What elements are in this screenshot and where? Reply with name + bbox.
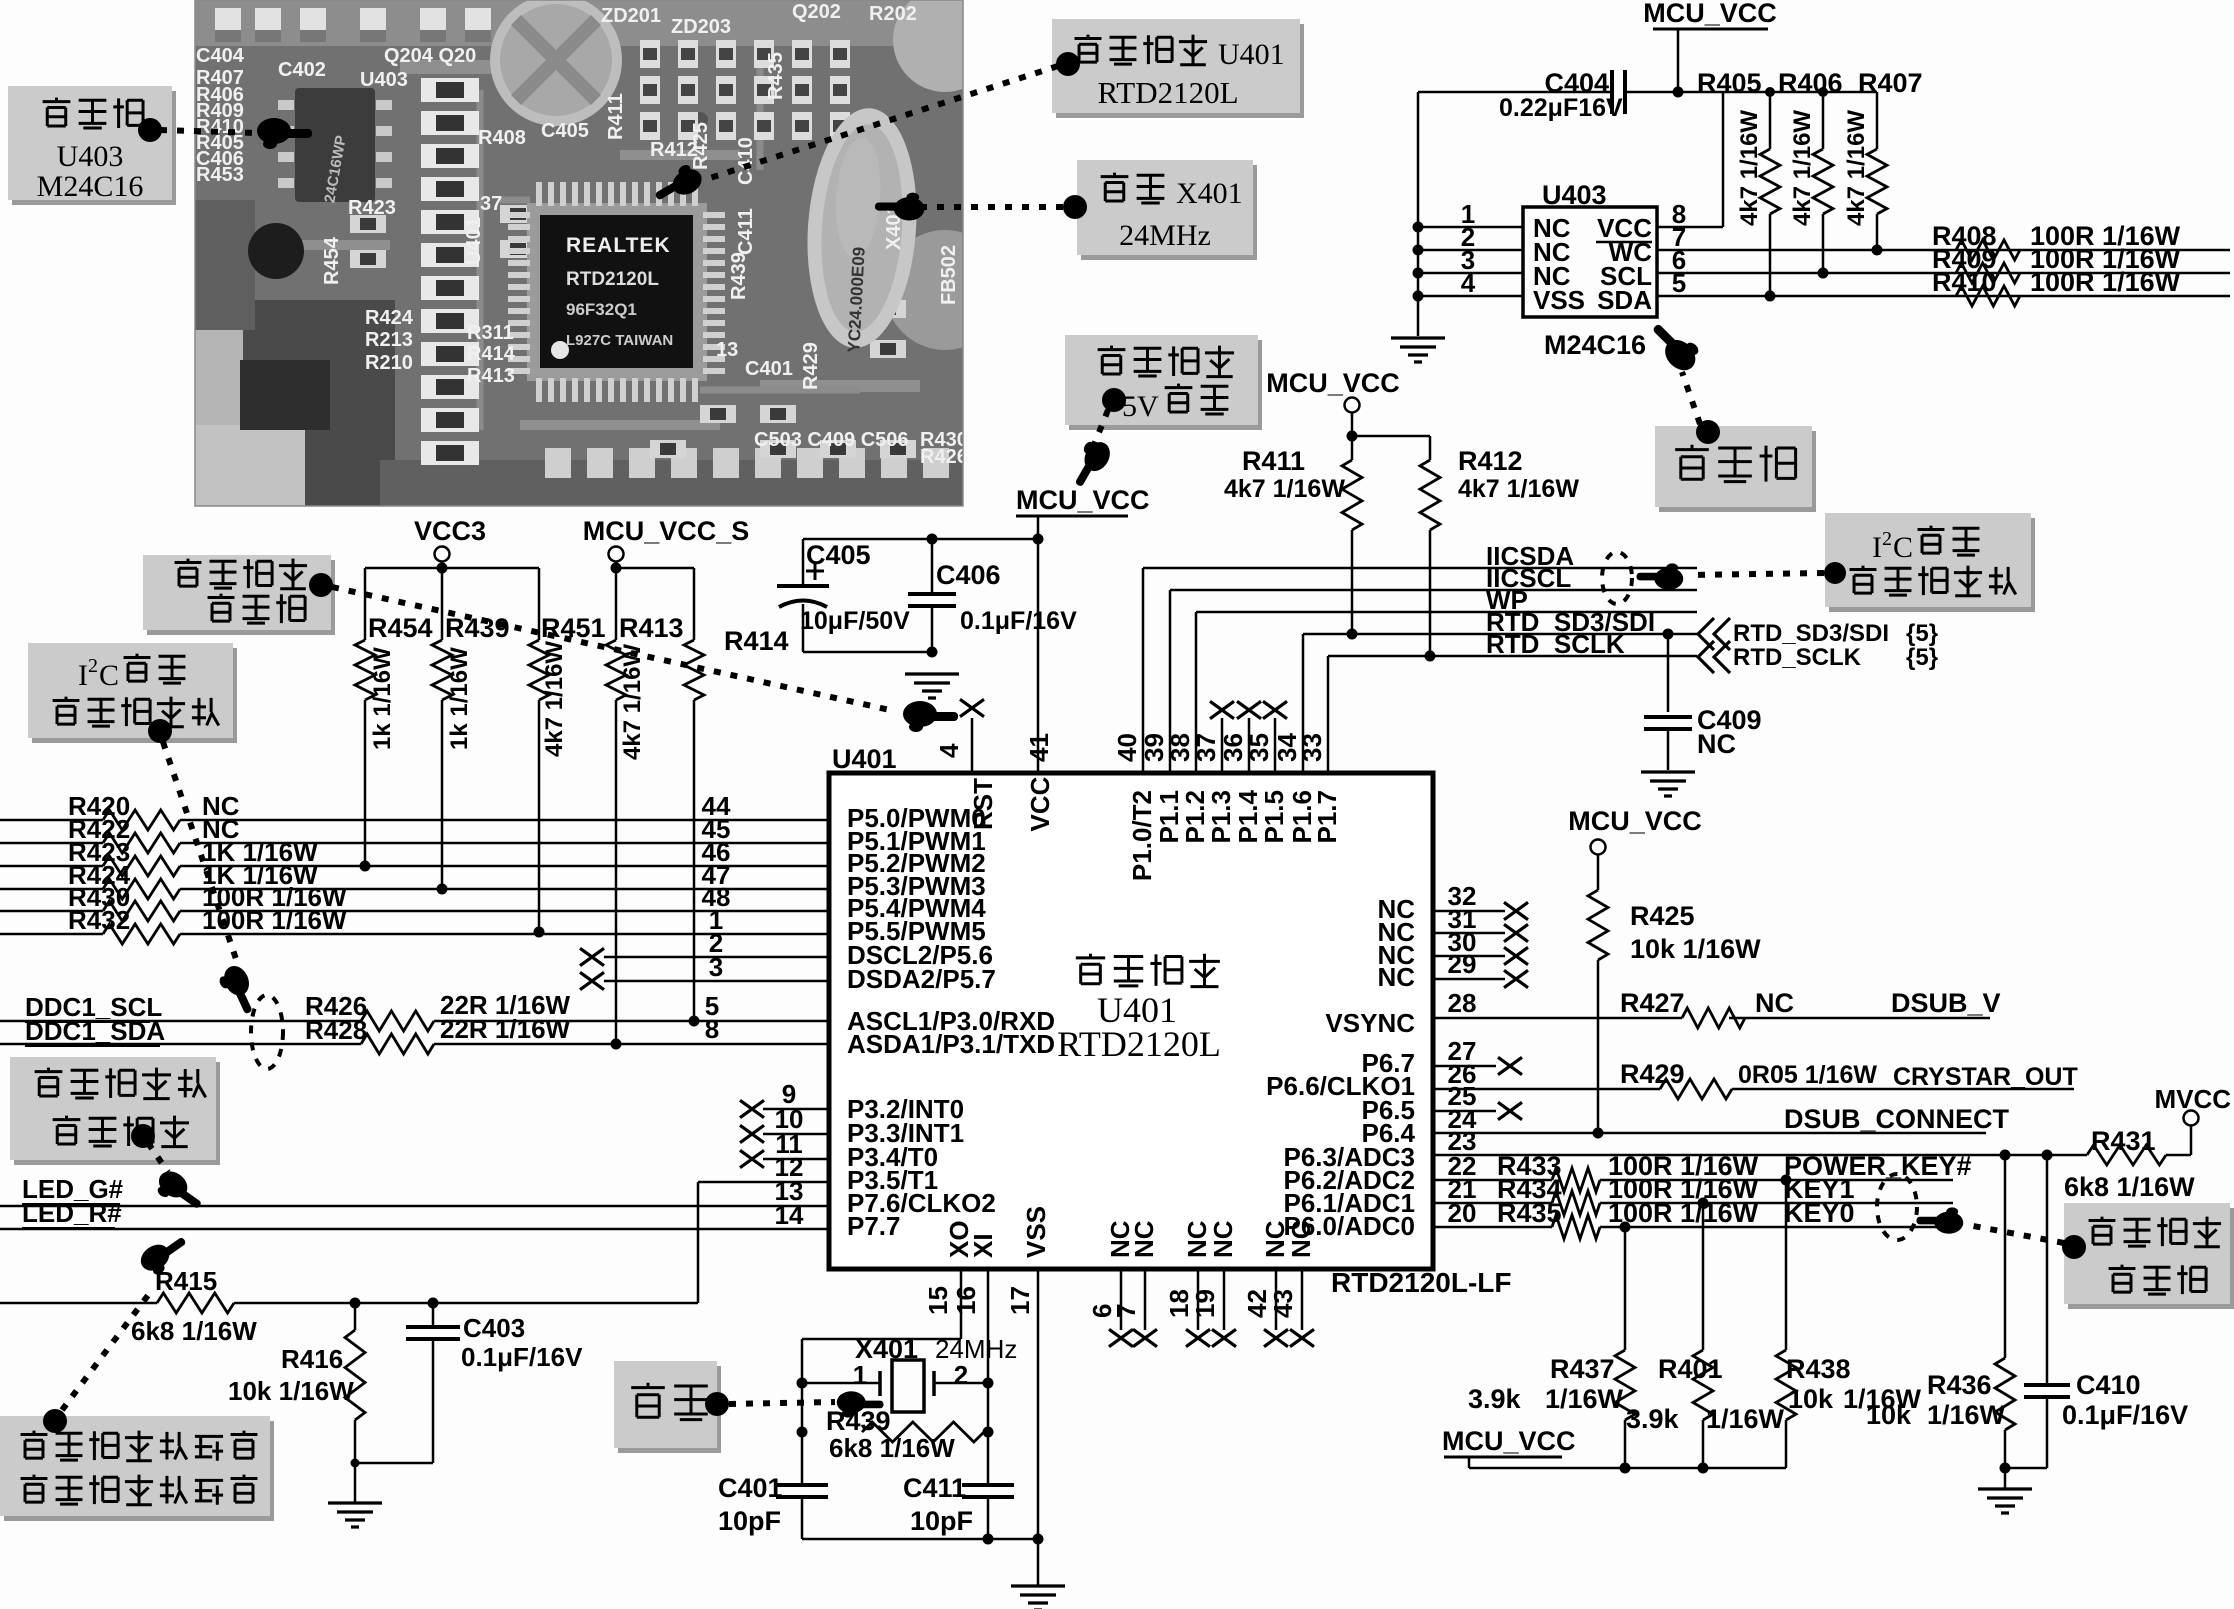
svg-text:C403: C403 [463,1313,525,1343]
no-connect pin 30 [1433,955,1505,958]
svg-text:10k: 10k [1788,1384,1834,1414]
svg-text:1/16W: 1/16W [1927,1400,2006,1430]
junction R451/pin1 [534,927,545,938]
wire VCC3 rail [441,561,444,568]
wire U403 left bus [1417,92,1420,336]
leader line to LED_R# [62,1290,152,1410]
svg-text:R439: R439 [728,252,750,300]
svg-text:14: 14 [775,1200,804,1230]
wire KEY1 row (pin21) [1433,1202,1552,1205]
junction R416 column [351,1459,360,1468]
callout box 绿色指示灯 控制信号 [14,1062,220,1165]
leader line to DDC wires [163,742,237,962]
svg-text:KEY0: KEY0 [1784,1198,1855,1228]
svg-text:C: C [1893,531,1913,564]
junction R437/rail [1620,1463,1631,1474]
resistor R451 [529,640,549,700]
svg-text:2: 2 [88,655,98,677]
junction R407/WC [1872,245,1883,256]
resistor R434 [1552,1191,1600,1215]
wire C410 to R436 [2005,1467,2047,1470]
pointer hand at IIC bus [1637,563,1684,589]
svg-text:C404: C404 [196,45,245,67]
svg-text:R405: R405 [1697,68,1762,98]
svg-text:RTD2120L: RTD2120L [566,269,659,290]
IC U401 (RTD2120L MCU) body [829,773,1433,1269]
wire MCU_VCC top rail [803,538,1038,541]
pin 4 U403 stub [1418,295,1523,298]
svg-text:MCU_VCC: MCU_VCC [1266,368,1400,398]
svg-text:C402: C402 [278,59,326,81]
no-connect pin 11 [763,1158,829,1161]
svg-text:MCU_VCC: MCU_VCC [1643,0,1777,28]
svg-text:C411: C411 [903,1473,966,1503]
junction bus pin 3 [1413,268,1424,279]
svg-text:4k7 1/16W: 4k7 1/16W [1843,110,1870,226]
no-connect pin 7 (bottom) [1144,1269,1147,1330]
wire LED_R# (pin14) [0,1228,829,1231]
ground R416 [328,1503,382,1527]
wire SDA row (pin5) [1657,295,2230,298]
leader dot 晶体X401 [1063,195,1087,219]
svg-text:U403: U403 [57,140,124,173]
svg-text:VSS: VSS [1021,1206,1051,1258]
leader line to LED_G# [148,1143,168,1172]
svg-text:VCC3: VCC3 [414,516,486,546]
wire WP [1196,611,1697,614]
resistor R408 [1956,240,2020,260]
svg-text:40: 40 [1112,733,1142,762]
no-connect pin 9 [763,1108,829,1111]
leader dot I2C(left) [148,719,172,743]
junction X401 pin2 [983,1378,994,1389]
svg-text:3: 3 [709,952,723,982]
resistor R439 [862,1422,984,1442]
junction MCU_VCC/C404 rail [1673,87,1684,98]
no-connect pin 37 [1221,718,1224,773]
svg-text:R213: R213 [365,329,413,351]
capacitor C403 [432,1303,435,1327]
svg-text:M24C16: M24C16 [37,170,144,203]
capacitor C405 (electrolytic) [802,539,805,586]
svg-text:R423: R423 [348,197,396,219]
wire C404 left lead [1418,91,1612,94]
svg-text:0.1μF/16V: 0.1μF/16V [461,1342,583,1372]
text 微处理器 (inside U401) [1076,954,1105,984]
svg-text:U401: U401 [1218,38,1285,71]
svg-text:{5}: {5} [1906,620,1938,647]
svg-text:C410: C410 [2076,1370,2141,1400]
leader dot 绿色指示灯 [131,1124,155,1148]
wire CLKO1 row (pin26) [1433,1088,1660,1091]
wire MCU_VCC bottom rail [1468,1457,1471,1468]
resistor R433 [1552,1168,1600,1192]
svg-text:RTD_SD3/SDI: RTD_SD3/SDI [1733,620,1889,647]
svg-text:R438: R438 [1786,1354,1851,1384]
svg-text:SDA: SDA [1597,285,1652,315]
pin 1 U403 stub [1418,226,1523,229]
svg-text:6k8 1/16W: 6k8 1/16W [2064,1172,2195,1202]
svg-text:ZD203: ZD203 [671,16,731,38]
capacitor C410 [2046,1155,2049,1385]
wire IICSCL [1170,589,1697,592]
wire DDC1_SCL / resistor R426 [0,1020,361,1023]
junction R439 right [983,1427,994,1438]
svg-text:4k7 1/16W: 4k7 1/16W [541,641,568,757]
svg-text:R425: R425 [690,122,712,170]
svg-text:C401: C401 [718,1473,783,1503]
svg-text:4k7 1/16W: 4k7 1/16W [1224,475,1345,503]
svg-text:43: 43 [1268,1289,1298,1318]
capacitor C409 [1667,634,1670,712]
junction R437/KEY0 [1620,1222,1631,1233]
svg-text:P1.7: P1.7 [1312,790,1342,844]
no-connect pin 6 (bottom) [1120,1269,1123,1330]
resistor R423 [0,865,103,868]
wire XI column (pin16) [987,1269,990,1485]
junction R411/RTD_SD3 [1347,629,1358,640]
svg-text:U403: U403 [1542,180,1607,210]
junction R406/SCL [1818,268,1829,279]
svg-text:100R 1/16W: 100R 1/16W [1608,1198,1759,1228]
pointer hand at LED_R# [136,1228,193,1279]
resistor R409 [1956,263,2020,283]
svg-text:19: 19 [1190,1289,1220,1318]
svg-text:8: 8 [705,1014,719,1044]
resistor R422 [0,842,103,845]
svg-text:R453: R453 [196,164,244,186]
svg-text:R413: R413 [467,365,515,387]
resistor R413 [615,568,618,640]
pointer hand at KEY wires [1917,1207,1964,1233]
svg-text:U401: U401 [463,217,485,265]
junction R438/POWER_KEY# [1781,1175,1792,1186]
resistor R412 [1420,460,1440,530]
svg-text:3.9k: 3.9k [1626,1404,1680,1434]
junction R439/pin47 [437,884,448,895]
svg-text:RTD_SCLK: RTD_SCLK [1733,644,1862,671]
svg-text:ASDA1/P3.1/TXD: ASDA1/P3.1/TXD [847,1029,1055,1059]
leader dot I2C(right) [1824,562,1846,584]
svg-text:R401: R401 [1658,1354,1723,1384]
junction R411/R412 top [1347,431,1358,442]
svg-text:R435: R435 [1497,1198,1562,1228]
pointer hand at crystal [875,193,925,221]
svg-text:0.1μF/16V: 0.1μF/16V [960,607,1077,635]
svg-text:R413: R413 [619,613,684,643]
junction R412/RTD_SCLK [1425,651,1436,662]
wire RTD_SD3/SDI [1303,633,1697,636]
wire MCU_VCC_S rail [615,561,618,568]
svg-text:33: 33 [1297,733,1327,762]
svg-text:4k7 1/16W: 4k7 1/16W [1736,110,1763,226]
no-connect pin 36 [1248,718,1251,773]
callout box 晶体X401 24MHz [1081,165,1257,260]
svg-text:M24C16: M24C16 [1544,330,1646,360]
svg-text:MCU_VCC: MCU_VCC [1016,485,1150,515]
svg-text:22R 1/16W: 22R 1/16W [440,1014,571,1044]
svg-text:R311: R311 [467,322,514,344]
resistor R437 [1624,1227,1627,1350]
junction C411/rail [983,1534,994,1545]
wire LED_G# (pin13) [0,1205,829,1208]
no-connect pin 35 [1274,718,1277,773]
wire DSUB_CONNECT row (pin24) [1433,1132,1986,1135]
svg-text:I: I [78,659,88,692]
svg-text:C406: C406 [936,560,1001,590]
resistor R416 [354,1303,357,1330]
wire U403 pin8 riser [1722,92,1725,227]
svg-text:R210: R210 [365,352,413,374]
resistor R401 [1702,1203,1705,1350]
svg-text:0.1μF/16V: 0.1μF/16V [2062,1400,2188,1430]
svg-text:P1.3: P1.3 [1206,790,1236,844]
no-connect pin 10 [763,1133,829,1136]
leader line to M24C16 [1682,372,1700,424]
leader dot 存储器(left) [138,118,162,142]
svg-text:P1.0/T2: P1.0/T2 [1127,790,1157,881]
svg-text:DSUB_CONNECT: DSUB_CONNECT [1784,1104,2010,1134]
resistor R420 [0,819,103,822]
svg-text:R202: R202 [869,3,917,25]
svg-text:MCU_VCC: MCU_VCC [1442,1426,1576,1456]
svg-text:R425: R425 [1630,901,1695,931]
probe ellipse DDC wires [251,995,283,1069]
junction VSS/rail [1033,1534,1044,1545]
resistor R439 (pullup) [441,568,444,640]
svg-text:R410: R410 [1932,267,1997,297]
svg-text:96F32Q1: 96F32Q1 [566,300,637,319]
no-connect pin 25 [1433,1110,1496,1113]
no-connect pin 43 (bottom) [1301,1269,1304,1330]
junction rail/R405 [1765,87,1775,97]
junction R414/pin5 [689,1016,700,1027]
no-connect pin 32 [1433,910,1505,913]
resistor R407 [1876,92,1879,149]
pin 2 U403 stub [1418,249,1523,252]
svg-text:28: 28 [1448,988,1477,1018]
callout box 晶体 (bottom) [618,1366,721,1453]
svg-text:R427: R427 [1620,988,1685,1018]
wire R412 branch [1352,435,1430,438]
svg-text:DSUB_V: DSUB_V [1891,988,2001,1018]
svg-text:7: 7 [1111,1304,1141,1318]
resistor R435 [1552,1215,1600,1239]
svg-text:R435: R435 [765,52,787,100]
svg-text:NC: NC [1208,1220,1238,1258]
capacitor C404 [1612,70,1625,114]
ground U403 bus [1391,338,1445,362]
svg-text:NC: NC [1697,729,1736,759]
callout box 微处理器 复位端 [147,560,335,635]
svg-text:R439: R439 [445,613,510,643]
no-connect pin 19 (bottom) [1223,1269,1226,1330]
svg-text:17: 17 [1005,1286,1035,1315]
leader line to X401 symbol [729,1402,835,1404]
svg-text:CRYSTAR_OUT: CRYSTAR_OUT [1893,1063,2078,1091]
svg-text:I: I [1872,531,1882,564]
no-connect pin 27 [1433,1065,1496,1068]
junction C406 bottom [927,647,938,658]
junction R454/pin46 [360,861,371,872]
leader line to crystal photo [910,204,1063,210]
svg-text:35: 35 [1244,733,1274,762]
svg-text:X401: X401 [1176,177,1243,210]
svg-text:RTD2120L: RTD2120L [1057,1024,1221,1064]
resistor R432 [0,933,103,936]
junction C410/row23 [2042,1150,2053,1161]
junction C409/RTD_SD3 [1663,629,1674,640]
svg-text:P1.5: P1.5 [1259,790,1289,844]
svg-text:NC: NC [1377,962,1415,992]
svg-text:U401: U401 [832,744,897,774]
leader dot 微处理器U401 [1056,52,1080,76]
offpage chevron RTD_SCLK [1698,641,1730,673]
svg-text:R428: R428 [305,1015,367,1045]
svg-text:2: 2 [954,1360,968,1390]
junction rail/R406 [1818,87,1828,97]
svg-text:24MHz: 24MHz [935,1334,1017,1364]
svg-text:4k7 1/16W: 4k7 1/16W [1458,475,1579,503]
junction bus pin 1 [1413,222,1424,233]
svg-text:FB502: FB502 [938,245,960,305]
pin 3 U403 stub [1418,272,1523,275]
svg-text:C411: C411 [735,208,757,255]
wire MCU_VCC rail to C404 [1625,91,1678,94]
no-connect pin 42 (bottom) [1275,1269,1278,1330]
svg-text:C405: C405 [806,540,871,570]
leader line to MCU_VCC [1092,410,1108,450]
wire VSS column (pin17) [1037,1269,1040,1585]
resistor R415 [157,1293,234,1313]
svg-text:5V: 5V [1122,390,1159,423]
leader dot 橙色 [43,1409,67,1433]
pointer hand at QFP [649,160,706,209]
junction R413/pin8 [611,1039,622,1050]
resistor R438 [1785,1180,1788,1350]
svg-text:R414: R414 [724,626,789,656]
resistor R414 [684,640,704,700]
leader dot 键控信号 [2062,1235,2086,1259]
svg-text:L927C TAIWAN: L927C TAIWAN [566,332,673,349]
svg-text:4k7 1/16W: 4k7 1/16W [1789,110,1816,226]
svg-text:10pF: 10pF [910,1506,973,1536]
callout box I2C总线 控制信号端 (right) [1829,518,2035,612]
svg-text:37: 37 [1191,733,1221,762]
svg-text:R424: R424 [365,307,414,329]
callout box 橙色待机指示灯 控制信号输出端 [4,1421,274,1521]
leader line to IIC bus [1688,573,1824,575]
IC U403 (M24C16 EEPROM) body [1523,207,1657,317]
svg-text:RTD_SCLK: RTD_SCLK [1486,629,1625,659]
svg-text:1k 1/16W: 1k 1/16W [369,647,396,750]
pointer hand at DDC wires [215,962,261,1019]
callout box 存储器(right) [1659,431,1816,512]
no-connect pin 2 [604,956,829,959]
svg-text:R414: R414 [467,343,516,365]
callout box 键控信号 输入端 [2068,1208,2234,1309]
ground C405/C406 [905,674,959,698]
svg-text:{5}: {5} [1906,644,1938,671]
svg-text:R408: R408 [478,127,526,149]
leader line to KEY wires [1968,1225,2064,1243]
pointer hand at MCU_VCC net [1066,435,1115,492]
resistor R436 [2004,1155,2007,1358]
svg-text:NC: NC [1755,988,1794,1018]
svg-text:R407: R407 [1858,68,1923,98]
svg-text:16: 16 [951,1286,981,1315]
svg-text:3.9k: 3.9k [1468,1384,1522,1414]
junction R401/rail [1698,1463,1709,1474]
svg-text:10k: 10k [1866,1400,1912,1430]
svg-text:C: C [99,659,119,692]
svg-text:R429: R429 [1620,1059,1685,1089]
junction X401 pin1 [797,1378,808,1389]
resistor R427 [1682,1008,1745,1028]
pointer hand at RST X [903,701,958,732]
leader dot 5V供电 [1102,388,1126,412]
svg-text:10k 1/16W: 10k 1/16W [1630,934,1761,964]
svg-text:10k 1/16W: 10k 1/16W [228,1376,354,1406]
capacitor C401 [776,1485,828,1497]
pointer hand at LED_G# [151,1166,208,1217]
svg-text:DSDA2/P5.7: DSDA2/P5.7 [847,964,996,994]
resistor R429 [1660,1079,1732,1099]
svg-text:R431: R431 [2091,1126,2156,1156]
junction R436/C410 bottom [2000,1463,2011,1474]
junction R405/SDA [1765,291,1776,302]
wire VSYNC row (pin28) [1433,1017,1682,1020]
wire XO loop (pin15) [960,1269,963,1339]
svg-text:Q202: Q202 [792,1,841,23]
svg-text:1: 1 [853,1360,867,1390]
svg-text:29: 29 [1448,949,1477,979]
svg-text:R412: R412 [1458,446,1523,476]
junction R439 left [797,1427,808,1438]
junction R416/R415row [350,1298,361,1309]
resistor R424 [0,888,103,891]
svg-text:R411: R411 [1242,446,1305,476]
svg-text:LED_R#: LED_R# [22,1198,122,1228]
junction C403/R415row [428,1298,439,1309]
junction MCU_VCC rail [1033,534,1044,545]
svg-text:C401: C401 [745,358,793,380]
leader line to QFP photo [710,66,1058,178]
callout box I2C总线 控制信号端 (left) [32,648,237,743]
svg-text:Q204 Q20: Q204 Q20 [384,45,476,67]
ground C409 [1641,772,1695,796]
svg-text:P6.0/ADC0: P6.0/ADC0 [1284,1211,1416,1241]
wire IICSDA [1143,567,1697,570]
crystal X401 [892,1360,924,1412]
svg-text:13: 13 [716,339,738,361]
svg-text:100R 1/16W: 100R 1/16W [2030,267,2181,297]
junction bus pin 2 [1413,245,1424,256]
svg-text:U403: U403 [360,69,408,91]
junction C406 rail [927,534,938,545]
svg-text:6k8 1/16W: 6k8 1/16W [131,1316,257,1346]
wire C405/C406 bottom [803,651,932,654]
svg-text:VSS: VSS [1533,285,1585,315]
resistor R410 [1956,286,2020,306]
svg-text:R416: R416 [281,1344,343,1374]
leader dot 晶体(bottom) [705,1392,729,1416]
ground R436/C410 [1978,1489,2032,1513]
svg-text:XI: XI [968,1233,998,1258]
svg-text:1k 1/16W: 1k 1/16W [446,647,473,750]
svg-text:MCU_VCC: MCU_VCC [1568,806,1702,836]
pointer hand at U403 symbol [1644,315,1705,376]
